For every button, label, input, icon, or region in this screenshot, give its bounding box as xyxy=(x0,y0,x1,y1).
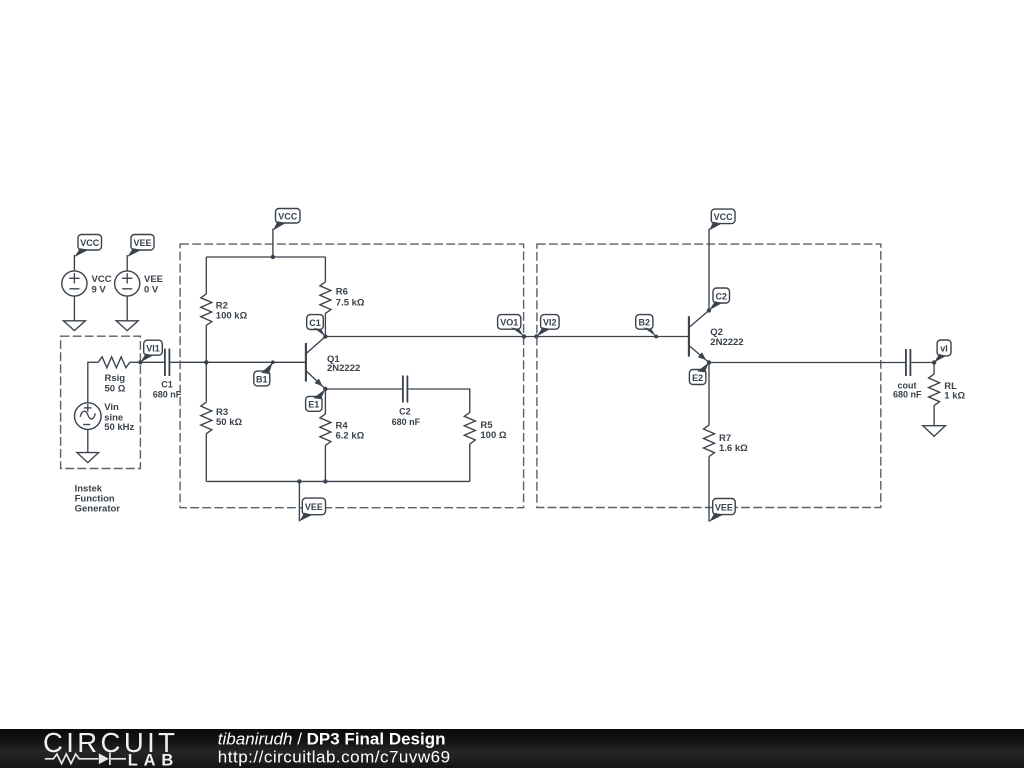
node (R4 junction) xyxy=(323,479,327,483)
svg-text:680 nF: 680 nF xyxy=(392,417,421,427)
resistor R4 6.2kΩ xyxy=(320,389,365,445)
resistor R3 50kΩ xyxy=(201,402,243,433)
svg-text:50 kΩ: 50 kΩ xyxy=(216,417,242,428)
node VEE label (stage 1) xyxy=(299,498,325,521)
wire xyxy=(205,434,207,482)
node C1 label xyxy=(307,315,328,339)
svg-text:vI: vI xyxy=(940,344,948,354)
node (base divider junction) xyxy=(204,360,208,364)
wire xyxy=(933,405,935,425)
node (VEE tap junction) xyxy=(297,479,301,483)
svg-text:0 V: 0 V xyxy=(144,284,159,295)
voltage source VEE 0V xyxy=(115,271,163,296)
node VO1 label xyxy=(498,315,527,339)
node VEE label (stage 2) xyxy=(709,499,735,522)
svg-text:VCC: VCC xyxy=(278,211,298,221)
node B2 label xyxy=(636,315,658,339)
node C2 label xyxy=(707,288,730,313)
footer bar xyxy=(0,727,1024,768)
wire xyxy=(205,362,207,402)
svg-text:E1: E1 xyxy=(308,400,319,410)
svg-text:tibanirudh / DP3 Final Design: tibanirudh / DP3 Final Design xyxy=(218,730,446,749)
wire xyxy=(324,313,326,336)
stage 2 enclosure (dashed) xyxy=(537,244,881,507)
resistor R6 7.5kΩ xyxy=(320,282,365,313)
capacitor C1 680nF xyxy=(153,349,182,400)
svg-text:VI1: VI1 xyxy=(146,343,160,353)
voltage source VCC 9V xyxy=(62,271,112,296)
transistor Q1 2N2222 xyxy=(306,337,360,390)
wire xyxy=(324,257,326,282)
resistor RL 1kΩ xyxy=(929,363,966,406)
svg-text:680 nF: 680 nF xyxy=(153,390,182,400)
svg-text:VEE: VEE xyxy=(133,238,151,248)
svg-text:VEE: VEE xyxy=(715,502,733,512)
wire xyxy=(126,296,128,321)
ground xyxy=(923,426,946,437)
node E2 label xyxy=(689,360,711,384)
capacitor C2 680nF xyxy=(392,376,421,428)
wire xyxy=(126,255,128,271)
wire xyxy=(408,389,470,413)
wire (VCC bus) xyxy=(206,256,325,258)
svg-text:VO1: VO1 xyxy=(500,318,518,328)
svg-text:100 Ω: 100 Ω xyxy=(480,430,506,441)
svg-text:C1: C1 xyxy=(309,318,321,328)
node VCC label (stage 1) xyxy=(273,209,300,231)
node VCC label (stage 2) xyxy=(709,209,735,230)
svg-text:C2: C2 xyxy=(715,291,727,301)
svg-text:50 kHz: 50 kHz xyxy=(104,422,134,433)
svg-text:7.5 kΩ: 7.5 kΩ xyxy=(336,297,365,308)
svg-text:680 nF: 680 nF xyxy=(893,390,922,400)
wire xyxy=(140,361,164,363)
node E1 label xyxy=(306,387,328,412)
svg-text:50 Ω: 50 Ω xyxy=(105,383,126,394)
source Vin sine 50kHz xyxy=(75,402,135,433)
wire xyxy=(170,361,305,363)
svg-text:VEE: VEE xyxy=(305,502,323,512)
wire xyxy=(708,457,710,522)
wire xyxy=(205,325,207,362)
svg-text:C2: C2 xyxy=(399,406,411,416)
node B1 label xyxy=(254,360,275,386)
ground xyxy=(63,321,85,331)
node VEE label (top-left source) xyxy=(127,235,154,258)
svg-text:1.6 kΩ: 1.6 kΩ xyxy=(719,443,748,454)
svg-text:2N2222: 2N2222 xyxy=(710,337,743,348)
svg-text:9 V: 9 V xyxy=(92,284,107,295)
wire xyxy=(73,255,75,271)
node VI2 label xyxy=(534,315,559,339)
resistor Rsig 50Ω xyxy=(98,357,130,395)
resistor R5 100Ω xyxy=(464,412,507,443)
svg-text:Generator: Generator xyxy=(75,503,121,514)
resistor R2 100kΩ xyxy=(201,294,248,325)
svg-text:B2: B2 xyxy=(639,318,651,328)
svg-text:E2: E2 xyxy=(692,373,703,383)
wire (VEE stub) xyxy=(298,481,300,521)
wire (VEE rail stage 1) xyxy=(206,480,470,482)
wire (emitter net) xyxy=(325,388,402,390)
wire xyxy=(87,429,89,452)
node (bus junction) xyxy=(271,255,275,259)
ground xyxy=(77,453,99,463)
svg-text:http://circuitlab.com/c7uvw69: http://circuitlab.com/c7uvw69 xyxy=(218,748,451,767)
wire xyxy=(324,445,326,481)
capacitor cout 680nF xyxy=(893,349,922,400)
node vI label xyxy=(932,340,951,365)
svg-text:2N2222: 2N2222 xyxy=(327,363,360,374)
wire xyxy=(469,444,471,482)
wire xyxy=(708,229,710,311)
transistor Q2 2N2222 xyxy=(689,310,744,362)
wire xyxy=(88,362,98,403)
svg-text:R6: R6 xyxy=(336,287,348,298)
svg-text:VI2: VI2 xyxy=(543,318,557,328)
svg-text:LAB: LAB xyxy=(128,752,179,768)
node VCC label (top-left source) xyxy=(74,235,101,258)
wire xyxy=(272,229,274,258)
resistor R7 1.6kΩ xyxy=(704,425,749,456)
svg-text:6.2 kΩ: 6.2 kΩ xyxy=(336,431,365,442)
svg-text:C1: C1 xyxy=(161,379,173,389)
wire (collector net to stage 2) xyxy=(325,336,689,338)
function generator enclosure (dashed) xyxy=(61,336,141,468)
svg-text:VCC: VCC xyxy=(80,238,100,248)
wire xyxy=(73,296,75,321)
node VI1 label xyxy=(138,340,162,364)
svg-text:1 kΩ: 1 kΩ xyxy=(944,391,965,402)
wire (emitter net stage 2) xyxy=(709,362,905,364)
svg-text:VCC: VCC xyxy=(714,212,734,222)
wire xyxy=(205,257,207,294)
stage 1 enclosure (dashed) xyxy=(180,244,523,508)
svg-text:100 kΩ: 100 kΩ xyxy=(216,311,248,322)
svg-text:B1: B1 xyxy=(256,374,268,384)
wire xyxy=(130,361,141,363)
wire xyxy=(708,363,710,426)
wire xyxy=(911,362,934,364)
ground xyxy=(116,321,138,331)
